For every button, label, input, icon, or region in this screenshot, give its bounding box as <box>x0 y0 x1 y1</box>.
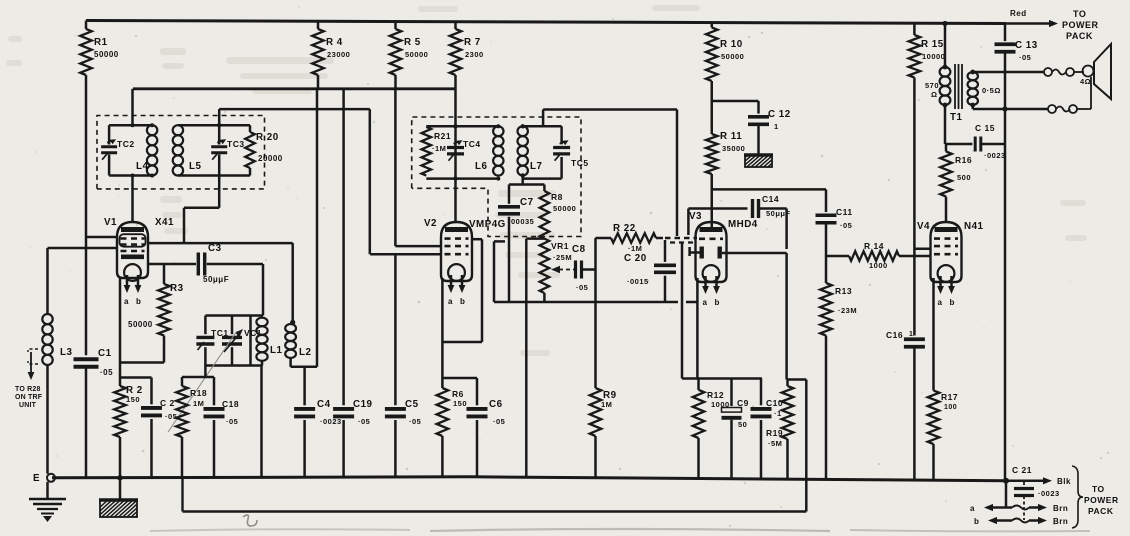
wire C8 to grid node <box>582 238 596 302</box>
resistor R13 <box>820 256 857 479</box>
wire IF1 secondary bottom <box>178 174 250 177</box>
svg-text:570: 570 <box>925 81 939 90</box>
wire R5 to V2 screen <box>395 89 441 246</box>
svg-text:VR1: VR1 <box>551 241 569 251</box>
wire IF1 secondary top <box>178 123 250 127</box>
resistor R16 <box>940 144 972 222</box>
resistor R8 <box>540 185 577 239</box>
svg-text:b: b <box>136 297 141 306</box>
capacitor C14 <box>753 194 791 218</box>
wire secondary bottom <box>973 105 1048 112</box>
resistor R22 <box>596 223 664 253</box>
svg-text:·05: ·05 <box>1019 53 1031 62</box>
inductor L6 <box>475 126 503 175</box>
capacitor C21 <box>1012 465 1060 520</box>
svg-text:·05: ·05 <box>100 368 113 377</box>
svg-text:R16: R16 <box>955 155 972 165</box>
wire L2 bottom <box>291 366 317 369</box>
wire screen rail <box>133 87 456 90</box>
wire bias to earth <box>526 239 544 477</box>
inductor L7 <box>518 124 543 178</box>
svg-text:X41: X41 <box>155 217 174 228</box>
wire secondary top <box>973 71 1044 74</box>
svg-text:R 14: R 14 <box>864 241 884 251</box>
svg-text:23000: 23000 <box>327 50 350 59</box>
resistor R17 <box>928 391 958 480</box>
svg-text:R 10: R 10 <box>720 39 743 50</box>
wire R8 top <box>509 183 544 186</box>
wire V3 cathode <box>696 278 699 379</box>
svg-text:C 12: C 12 <box>768 109 791 120</box>
capacitor C12 <box>748 109 791 155</box>
svg-text:C19: C19 <box>353 399 373 410</box>
svg-text:TO R28: TO R28 <box>15 386 41 393</box>
svg-text:100: 100 <box>944 404 957 411</box>
capacitor C13 <box>995 24 1038 481</box>
resistor R2 <box>114 385 143 481</box>
svg-text:R 4: R 4 <box>326 37 343 48</box>
svg-text:V4: V4 <box>917 221 930 232</box>
capacitor C1 <box>74 237 114 478</box>
wire V2 suppressor stub <box>494 241 505 302</box>
svg-text:C10: C10 <box>766 398 783 408</box>
wire TC1 stub <box>204 366 207 378</box>
tube V1 X41 <box>104 217 174 306</box>
svg-text:b: b <box>460 297 465 306</box>
svg-text:50000: 50000 <box>721 52 744 61</box>
svg-text:·05: ·05 <box>493 417 505 426</box>
wire heater a <box>970 481 1068 513</box>
svg-text:R19: R19 <box>766 428 783 438</box>
svg-text:UNIT: UNIT <box>19 402 37 409</box>
svg-text:E: E <box>33 473 40 484</box>
svg-text:L7: L7 <box>530 161 542 172</box>
capacitor C6 <box>467 399 506 477</box>
wire tuned box bottom <box>205 364 261 367</box>
svg-text:PACK: PACK <box>1066 31 1093 41</box>
svg-text:C 20: C 20 <box>624 253 647 264</box>
wire AVC to V2 grid <box>370 253 441 256</box>
wire heater return branch <box>787 380 807 512</box>
svg-text:MHD4: MHD4 <box>728 219 758 230</box>
svg-text:·0023: ·0023 <box>984 151 1006 160</box>
transformer T1 core <box>955 64 962 109</box>
resistor R7 <box>450 21 484 89</box>
svg-text:1M: 1M <box>193 399 204 408</box>
capacitor C8 <box>572 244 588 292</box>
inductor L1 <box>256 318 282 366</box>
svg-text:·0015: ·0015 <box>627 277 649 286</box>
resistor R5 <box>390 21 429 89</box>
wire C12 branch <box>712 101 759 114</box>
svg-text:C3: C3 <box>208 243 222 254</box>
svg-text:·23M: ·23M <box>838 306 857 315</box>
speaker <box>1080 44 1111 109</box>
wire R7 column to V2 anode <box>454 89 457 222</box>
wire IF1 to V1 top cap <box>131 174 135 223</box>
wire IF1 primary bottom <box>109 174 152 177</box>
svg-text:R 15: R 15 <box>921 39 944 50</box>
IF transformer 1 dashed box <box>97 116 265 189</box>
resistor R14 <box>826 241 931 270</box>
wire IF1 primary top <box>109 89 152 127</box>
ground chassis R2 <box>88 478 159 518</box>
transformer T1 secondary <box>950 70 1001 123</box>
svg-text:R1: R1 <box>94 37 108 48</box>
capacitor C18 <box>204 377 240 477</box>
svg-text:20000: 20000 <box>258 154 283 163</box>
capacitor TC3 <box>211 125 244 175</box>
svg-text:·5M: ·5M <box>768 439 782 448</box>
resistor R10 <box>706 23 744 102</box>
svg-text:R17: R17 <box>941 392 958 402</box>
svg-text:C 2: C 2 <box>160 398 175 408</box>
capacitor TC5 <box>553 126 588 178</box>
wire cathode line <box>494 301 697 304</box>
svg-text:L1: L1 <box>270 345 282 356</box>
capacitor C4 <box>294 367 342 477</box>
capacitor TC1 <box>196 316 228 366</box>
svg-text:R8: R8 <box>551 192 563 202</box>
wire V2 screen stub <box>442 239 482 342</box>
label TO R28 ON TRF UNIT <box>15 349 43 409</box>
inductor L3 <box>42 248 72 474</box>
svg-text:·25M: ·25M <box>553 253 572 262</box>
svg-text:a: a <box>448 297 453 306</box>
svg-text:50μμF: 50μμF <box>203 275 229 284</box>
svg-text:C 21: C 21 <box>1012 465 1032 475</box>
wire R15 column <box>914 78 931 336</box>
svg-text:0·5Ω: 0·5Ω <box>982 86 1001 95</box>
wire TC3 to V1 grid line <box>184 176 219 244</box>
tube V4 N41 <box>917 221 984 307</box>
potentiometer VR1 <box>540 239 572 302</box>
svg-text:Ω: Ω <box>931 90 938 99</box>
svg-text:PACK: PACK <box>1088 506 1114 516</box>
svg-text:4Ω: 4Ω <box>1080 77 1091 86</box>
capacitor C11 <box>816 189 853 256</box>
svg-text:C1: C1 <box>98 348 112 359</box>
svg-text:R 5: R 5 <box>404 37 421 48</box>
svg-text:35000: 35000 <box>722 144 745 153</box>
tube V2 VMP4G <box>424 218 506 306</box>
svg-text:R12: R12 <box>707 390 724 400</box>
wire tuned box top <box>205 316 263 366</box>
svg-text:·05: ·05 <box>576 283 588 292</box>
svg-text:150: 150 <box>126 395 140 404</box>
svg-text:50000: 50000 <box>553 204 576 213</box>
svg-text:·0023: ·0023 <box>1038 489 1060 498</box>
svg-text:C4: C4 <box>317 399 331 410</box>
svg-text:TC4: TC4 <box>463 139 481 149</box>
capacitor TC4 <box>447 139 481 161</box>
svg-text:T1: T1 <box>950 112 962 123</box>
svg-text:VC1: VC1 <box>244 328 262 338</box>
jack top <box>1044 68 1084 76</box>
capacitor C19 <box>333 89 372 477</box>
wire IF2 secondary bottom <box>523 176 562 185</box>
svg-text:V2: V2 <box>424 218 437 229</box>
resistor R18 <box>176 377 207 479</box>
svg-text:L4: L4 <box>136 161 148 172</box>
resistor R12 <box>693 379 730 480</box>
ghost print-through texture <box>226 57 334 64</box>
svg-text:a: a <box>703 298 708 307</box>
resistor R4 <box>312 21 350 89</box>
svg-text:1000: 1000 <box>869 261 888 270</box>
svg-text:R21: R21 <box>434 131 451 141</box>
inductor L4 <box>136 123 157 177</box>
paper speckle texture <box>367 83 369 85</box>
svg-text:C8: C8 <box>572 244 586 255</box>
svg-text:L2: L2 <box>299 347 311 358</box>
svg-text:C7: C7 <box>520 197 534 208</box>
wire C3 to L1 <box>207 264 263 316</box>
svg-text:TO: TO <box>1073 9 1086 19</box>
svg-text:N41: N41 <box>964 221 984 232</box>
gang line <box>168 331 237 432</box>
svg-text:1: 1 <box>774 122 779 131</box>
svg-text:Red: Red <box>1010 9 1027 18</box>
svg-text:·1M: ·1M <box>628 244 642 253</box>
svg-text:POWER: POWER <box>1062 20 1099 30</box>
capacitor C10 <box>751 379 784 480</box>
svg-text:a: a <box>970 504 975 513</box>
capacitor C15 <box>945 123 1006 160</box>
svg-text:b: b <box>715 298 720 307</box>
ground chassis C12 <box>733 154 787 168</box>
jack bottom <box>1048 105 1091 113</box>
svg-text:Brn: Brn <box>1053 517 1068 526</box>
svg-text:1: 1 <box>909 331 913 338</box>
svg-text:C 13: C 13 <box>1015 40 1038 51</box>
svg-text:1M: 1M <box>601 400 612 409</box>
wire IF2 primary bottom <box>426 176 500 180</box>
wire V4 cathode <box>932 278 935 391</box>
capacitor C2 <box>141 378 177 478</box>
node E terminal <box>33 473 55 484</box>
svg-text:50000: 50000 <box>128 320 153 329</box>
svg-text:500: 500 <box>957 173 971 182</box>
wire earth rail <box>52 477 1006 481</box>
svg-text:TC2: TC2 <box>117 139 135 149</box>
svg-text:R3: R3 <box>170 283 184 294</box>
wire grid to AF network <box>681 243 684 379</box>
svg-text:150: 150 <box>453 399 467 408</box>
svg-text:C 15: C 15 <box>975 123 995 133</box>
svg-text:C6: C6 <box>489 399 503 410</box>
svg-text:a: a <box>124 297 129 306</box>
wire V1 grid to L2 <box>148 243 296 325</box>
svg-text:a: a <box>938 298 943 307</box>
svg-text:POWER: POWER <box>1084 495 1119 505</box>
resistor R15 <box>909 24 946 78</box>
svg-text:·1M: ·1M <box>432 144 446 153</box>
svg-text:10000: 10000 <box>922 52 945 61</box>
capacitor C9 <box>722 379 749 480</box>
svg-text:b: b <box>950 298 955 307</box>
resistor R19 <box>766 380 793 480</box>
wire AF network top <box>682 377 762 380</box>
svg-text:C9: C9 <box>737 398 749 408</box>
svg-text:ON TRF: ON TRF <box>15 394 43 401</box>
svg-text:TO: TO <box>1092 484 1105 494</box>
svg-text:C18: C18 <box>222 399 239 409</box>
wire Blk <box>1003 477 1071 486</box>
svg-text:·05: ·05 <box>358 417 370 426</box>
svg-text:R 7: R 7 <box>464 37 481 48</box>
svg-text:TC3: TC3 <box>227 139 245 149</box>
svg-text:L6: L6 <box>475 161 487 172</box>
svg-text:·05: ·05 <box>165 412 177 421</box>
resistor R6 <box>437 388 467 477</box>
tube V3 MHD4 <box>689 211 758 307</box>
capacitor TC2 <box>101 125 134 175</box>
wire heater rail <box>183 479 807 512</box>
wire V1 anode out <box>148 263 197 266</box>
wire IF2 primary top <box>426 124 500 128</box>
svg-text:C5: C5 <box>405 399 419 410</box>
svg-text:R 11: R 11 <box>720 131 742 142</box>
wire V2 cathode <box>441 278 444 388</box>
resistor R20 <box>245 125 283 175</box>
wire R4 column <box>316 89 319 367</box>
capacitor C20 <box>624 240 676 302</box>
inductor L5 <box>173 125 202 175</box>
wire R1 to V1 grid <box>86 75 118 237</box>
svg-text:50: 50 <box>738 420 747 429</box>
svg-text:·00035: ·00035 <box>508 217 534 226</box>
wire IF2 secondary top <box>523 125 562 128</box>
svg-text:L5: L5 <box>189 161 201 172</box>
resistor R9 <box>590 302 617 477</box>
svg-text:V1: V1 <box>104 217 117 228</box>
capacitor C7 <box>498 185 534 303</box>
pencil mark fig number <box>150 515 1090 531</box>
capacitor C5 <box>385 254 421 477</box>
capacitor VC1 <box>222 316 262 366</box>
svg-text:L3: L3 <box>60 347 72 358</box>
wire C14 line <box>688 209 747 236</box>
wire heater b <box>974 517 1068 526</box>
svg-text:·05: ·05 <box>840 221 852 230</box>
capacitor C16 <box>886 330 925 479</box>
wire C14 to diode <box>759 209 787 250</box>
svg-text:TC5: TC5 <box>571 158 589 168</box>
wire R22 to V3 grid dashes <box>665 238 697 243</box>
svg-text:b: b <box>974 517 979 526</box>
svg-text:50000: 50000 <box>94 50 119 59</box>
resistor R11 <box>706 101 745 227</box>
svg-text:·05: ·05 <box>409 417 421 426</box>
svg-text:Blk: Blk <box>1057 477 1071 486</box>
wire HT+ top rail <box>86 21 1006 24</box>
wire diode output <box>722 253 787 380</box>
svg-text:R6: R6 <box>452 389 464 399</box>
wire V1 cathode <box>120 278 164 386</box>
bracket to power pack <box>1072 466 1119 528</box>
svg-text:R18: R18 <box>190 388 207 398</box>
svg-text:VMP4G: VMP4G <box>469 219 506 230</box>
wire IF2 to V3 grid link <box>543 110 677 237</box>
svg-text:R 20: R 20 <box>256 132 279 143</box>
wire L1 bottom to earth rail <box>260 366 263 478</box>
svg-text:50000: 50000 <box>405 50 428 59</box>
svg-text:C14: C14 <box>762 194 779 204</box>
wiper arrow VR1 <box>551 266 584 273</box>
transformer T1 primary <box>925 21 950 144</box>
wire anode feed line <box>712 188 826 191</box>
svg-text:R 22: R 22 <box>613 223 636 234</box>
resistor R1 <box>80 21 119 76</box>
label Red to power pack <box>1003 9 1099 41</box>
svg-text:·05: ·05 <box>226 417 238 426</box>
svg-text:Brn: Brn <box>1053 504 1068 513</box>
capacitor C3 <box>198 243 229 284</box>
svg-text:2300: 2300 <box>465 50 484 59</box>
svg-text:C16: C16 <box>886 330 903 340</box>
resistor R21 <box>422 127 452 176</box>
wire R18 C18 top <box>182 376 214 379</box>
svg-text:C11: C11 <box>836 207 853 217</box>
svg-text:V3: V3 <box>689 211 702 222</box>
wire IF1 secondary to AVC <box>219 109 370 254</box>
inductor L2 <box>285 324 311 367</box>
svg-text:R13: R13 <box>835 286 852 296</box>
ground earth symbol <box>29 482 66 522</box>
IF transformer 2 dashed box <box>412 117 581 237</box>
wire L3 to V1 grid <box>48 247 118 250</box>
wire C6 branch <box>442 378 477 405</box>
resistor R3 <box>128 264 184 363</box>
